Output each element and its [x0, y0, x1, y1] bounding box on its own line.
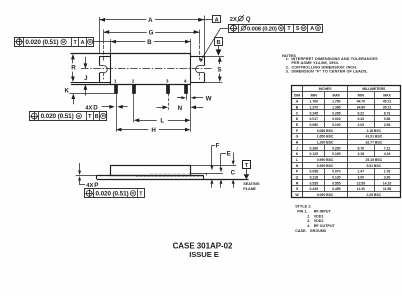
svg-text:7.11: 7.11	[384, 146, 390, 150]
svg-text:A: A	[81, 40, 85, 46]
svg-text:G: G	[296, 135, 299, 139]
svg-text:1.78: 1.78	[384, 170, 391, 174]
svg-text:S: S	[296, 26, 300, 32]
svg-text:6.22: 6.22	[358, 111, 365, 115]
svg-text:0.070: 0.070	[332, 170, 341, 174]
svg-text:41.91 BSC: 41.91 BSC	[366, 135, 383, 139]
svg-text:4: 4	[184, 79, 187, 84]
svg-text:STYLE 1:: STYLE 1:	[295, 205, 311, 209]
svg-text:6.76: 6.76	[358, 146, 365, 150]
svg-text:3.: 3.	[307, 219, 310, 223]
svg-text:H: H	[151, 127, 156, 134]
svg-text:R: R	[71, 65, 76, 72]
svg-text:CASE:: CASE:	[295, 229, 306, 233]
svg-text:25.15 BSC: 25.15 BSC	[366, 158, 383, 162]
svg-text:0.266: 0.266	[310, 146, 319, 150]
svg-text:C: C	[231, 169, 236, 176]
svg-text:1.: 1.	[286, 57, 289, 61]
svg-text:3.30: 3.30	[384, 176, 391, 180]
svg-text:J: J	[84, 75, 88, 82]
svg-text:35.21: 35.21	[383, 105, 392, 109]
svg-text:D: D	[93, 104, 98, 111]
svg-text:9.91 BSC: 9.91 BSC	[366, 164, 381, 168]
svg-text:2.29 BSC: 2.29 BSC	[366, 193, 381, 197]
svg-text:2.54: 2.54	[384, 123, 391, 127]
svg-text:34.80: 34.80	[357, 105, 366, 109]
svg-text:45.21: 45.21	[383, 100, 392, 104]
svg-text:1.47: 1.47	[358, 170, 365, 174]
svg-text:MILLIMETERS: MILLIMETERS	[362, 87, 386, 91]
svg-text:Q: Q	[246, 17, 251, 23]
svg-text:Q: Q	[296, 176, 299, 180]
svg-text:1.290 BSC: 1.290 BSC	[317, 140, 334, 144]
svg-text:0.008 (0.20): 0.008 (0.20)	[247, 26, 277, 32]
svg-text:0.100: 0.100	[332, 123, 341, 127]
svg-text:1: 1	[114, 79, 117, 84]
svg-text:G: G	[149, 29, 154, 36]
svg-text:0.023: 0.023	[332, 117, 341, 121]
svg-text:M: M	[102, 114, 105, 118]
svg-text:44.70: 44.70	[357, 100, 366, 104]
svg-text:VDD1: VDD1	[314, 214, 324, 218]
svg-text:M: M	[317, 26, 320, 30]
svg-text:0.245: 0.245	[310, 111, 319, 115]
svg-text:6.73: 6.73	[384, 111, 391, 115]
svg-text:2: 2	[132, 79, 135, 84]
svg-text:DIM: DIM	[294, 94, 300, 98]
svg-text:4.19: 4.19	[384, 152, 391, 156]
svg-text:A: A	[310, 26, 314, 32]
svg-text:0.086 BSC: 0.086 BSC	[317, 129, 334, 133]
svg-text:A: A	[215, 17, 219, 23]
svg-text:2X: 2X	[230, 17, 237, 23]
svg-text:MAX: MAX	[383, 94, 391, 98]
svg-text:0.535: 0.535	[310, 181, 319, 185]
svg-text:0.58: 0.58	[384, 117, 391, 121]
svg-text:0.125: 0.125	[310, 152, 319, 156]
svg-text:0.445: 0.445	[310, 187, 319, 191]
svg-text:0.43: 0.43	[358, 117, 365, 121]
svg-text:RF INPUT: RF INPUT	[314, 209, 332, 213]
svg-text:DIMENSION “F” TO CENTER OF LEA: DIMENSION “F” TO CENTER OF LEADS.	[291, 69, 367, 73]
svg-text:PER ASME Y14.5M, 1994.: PER ASME Y14.5M, 1994.	[291, 61, 339, 65]
svg-text:M: M	[77, 114, 80, 118]
svg-text:MIN: MIN	[311, 94, 318, 98]
svg-text:0.017: 0.017	[310, 117, 319, 121]
svg-text:0.990 BSC: 0.990 BSC	[317, 158, 334, 162]
svg-text:W: W	[206, 95, 212, 102]
svg-text:11.56: 11.56	[383, 187, 391, 191]
svg-text:PIN 1.: PIN 1.	[297, 209, 307, 213]
svg-text:0.020 (0.51): 0.020 (0.51)	[25, 39, 58, 46]
svg-text:0.165: 0.165	[332, 152, 341, 156]
svg-text:0.020 (0.51): 0.020 (0.51)	[41, 113, 74, 120]
svg-text:M: M	[302, 26, 305, 30]
svg-text:M: M	[132, 192, 135, 196]
svg-text:ISSUE E: ISSUE E	[189, 250, 219, 259]
svg-text:M: M	[89, 40, 92, 44]
svg-text:4X: 4X	[85, 105, 92, 111]
svg-text:B: B	[147, 39, 152, 46]
svg-text:M: M	[280, 26, 283, 30]
svg-text:11.30: 11.30	[357, 187, 365, 191]
svg-text:1.370: 1.370	[310, 105, 319, 109]
svg-text:0.455: 0.455	[332, 187, 341, 191]
svg-text:B: B	[95, 114, 99, 120]
svg-text:4.: 4.	[307, 224, 310, 228]
svg-text:VDD2: VDD2	[314, 219, 324, 223]
svg-text:0.555: 0.555	[332, 181, 341, 185]
svg-text:2.: 2.	[307, 214, 310, 218]
svg-text:3.18: 3.18	[358, 152, 365, 156]
svg-text:13.59: 13.59	[357, 181, 366, 185]
svg-text:INCHES: INCHES	[319, 87, 333, 91]
svg-text:M: M	[62, 40, 65, 44]
svg-text:MAX: MAX	[332, 94, 340, 98]
svg-text:GROUND: GROUND	[310, 229, 327, 233]
svg-text:3: 3	[166, 79, 169, 84]
svg-text:A: A	[148, 17, 153, 24]
svg-text:J: J	[296, 146, 298, 150]
svg-text:E: E	[227, 150, 231, 157]
svg-text:F: F	[216, 143, 220, 150]
svg-text:0.058: 0.058	[310, 170, 319, 174]
svg-text:MIN: MIN	[358, 94, 365, 98]
svg-text:1.760: 1.760	[310, 100, 319, 104]
svg-text:RF OUTPUT: RF OUTPUT	[314, 224, 336, 228]
svg-text:14.10: 14.10	[383, 181, 392, 185]
svg-text:3.00: 3.00	[358, 176, 365, 180]
svg-text:0.090 BSC: 0.090 BSC	[317, 193, 334, 197]
svg-text:K: K	[64, 88, 69, 95]
svg-text:T: T	[245, 163, 249, 169]
svg-text:0.080: 0.080	[310, 123, 319, 127]
svg-text:L: L	[160, 118, 164, 125]
svg-text:0.130: 0.130	[332, 176, 341, 180]
svg-text:0.020 (0.51): 0.020 (0.51)	[96, 191, 129, 198]
svg-text:1.386: 1.386	[332, 105, 341, 109]
svg-text:B: B	[216, 40, 220, 46]
svg-text:0.390 BSC: 0.390 BSC	[317, 164, 334, 168]
svg-text:PLANE: PLANE	[243, 187, 256, 191]
svg-text:S: S	[217, 66, 221, 73]
svg-text:0.280: 0.280	[332, 146, 341, 150]
svg-text:0.265: 0.265	[332, 111, 341, 115]
svg-text:1.780: 1.780	[332, 100, 341, 104]
svg-text:0.118: 0.118	[310, 176, 318, 180]
svg-text:3.: 3.	[286, 69, 289, 73]
svg-text:2.18 BSC: 2.18 BSC	[366, 129, 381, 133]
svg-text:2.03: 2.03	[358, 123, 365, 127]
svg-text:32.77 BSC: 32.77 BSC	[366, 140, 383, 144]
svg-text:SEATING: SEATING	[243, 182, 259, 186]
svg-text:N: N	[178, 105, 183, 112]
svg-text:1.650 BSC: 1.650 BSC	[317, 135, 334, 139]
